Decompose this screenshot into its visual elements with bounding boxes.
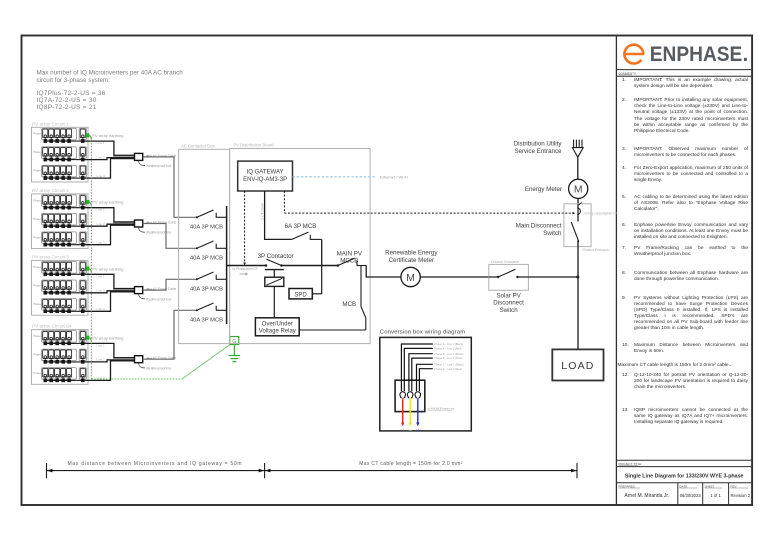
label weatherproof box leader — [139, 294, 172, 302]
svg-text:3P Contactor: 3P Contactor — [258, 253, 294, 260]
svg-text:40A 3P MCB: 40A 3P MCB — [190, 286, 223, 292]
solar PV disconnect switch — [489, 260, 529, 314]
svg-text:Phase A: Phase A — [33, 198, 44, 202]
wire phase B pair into terminal 2 — [409, 354, 433, 392]
svg-text:Phase A - Line 1 (Black): Phase A - Line 1 (Black) — [435, 342, 464, 346]
wire contactor coil to voltage relay — [273, 286, 275, 317]
svg-text:DATE: DATE — [680, 484, 688, 488]
node main junction — [576, 276, 579, 279]
wire: Phase B branch to AC cable bundle — [83, 158, 135, 160]
main disconnect switch blade — [571, 216, 579, 243]
title block divider line — [615, 36, 617, 506]
note 8. — [621, 271, 749, 283]
breaker 40A 3P MCB 1 — [190, 210, 227, 230]
PV string circuit 1 Phase C: panels + microinverters — [33, 165, 86, 179]
breaker MAIN PV MCCB — [337, 250, 367, 266]
note 12. — [621, 373, 749, 391]
enphase logo — [616, 43, 752, 69]
note 7. — [621, 246, 749, 258]
over/under voltage relay — [255, 318, 299, 336]
label AC Envoy cable — [147, 220, 177, 224]
PV string circuit 3 Phase C: panels + microinverters — [33, 299, 86, 313]
svg-text:PV array earthing: PV array earthing — [92, 266, 123, 271]
ethernet / wifi dashed link — [293, 174, 408, 179]
wire main disconnect to load — [577, 241, 579, 350]
svg-text:Phase A: Phase A — [33, 265, 44, 269]
note 6. — [621, 223, 749, 241]
svg-text:PV array Circuit 1: PV array Circuit 1 — [32, 121, 69, 126]
svg-text:Line 1: Line 1 — [97, 274, 106, 278]
renewable energy certificate meter — [385, 250, 438, 287]
wire: Phase C branch to AC cable bundle — [83, 159, 135, 179]
note 2. — [621, 98, 749, 134]
svg-text:Outdoor Enclosure: Outdoor Enclosure — [583, 248, 610, 252]
wire: Phase B branch to AC cable bundle — [83, 291, 135, 293]
wire: Phase A branch to AC cable bundle — [83, 343, 135, 357]
svg-text:Line 3: Line 3 — [97, 241, 106, 245]
output wire L2 — [409, 398, 413, 432]
svg-text:1 of 1: 1 of 1 — [710, 493, 721, 498]
svg-text:to 40A MCB branch ckt: to 40A MCB branch ckt — [428, 406, 455, 410]
svg-text:Main Disconnect: Main Disconnect — [516, 223, 562, 230]
wire: Phase C branch to AC cable bundle — [83, 225, 135, 245]
svg-text:Phase C - Line 2 (Red): Phase C - Line 2 (Red) — [435, 367, 463, 371]
note 13. — [621, 408, 749, 426]
svg-text:40A 3P MCB: 40A 3P MCB — [190, 255, 223, 261]
label AC Envoy cable — [147, 356, 177, 360]
svg-text:PV array Circuit 64: PV array Circuit 64 — [32, 324, 72, 329]
note 3. — [621, 147, 749, 159]
svg-text:Line 2: Line 2 — [97, 358, 106, 362]
svg-text:Envoy consumption CT: Envoy consumption CT — [585, 211, 618, 215]
wire: junction box 64 to 40A MCB 4 — [143, 310, 197, 359]
svg-text:ENPHASE: ENPHASE — [650, 43, 743, 66]
wire: Phase A branch to AC cable bundle — [83, 208, 135, 222]
terminal clamp 3 — [415, 392, 421, 398]
svg-text:Phase A: Phase A — [33, 132, 44, 136]
svg-text:1 x 4.0mm²: 1 x 4.0mm² — [260, 202, 264, 220]
PV string circuit 1 Phase A: panels + microinverters — [33, 128, 86, 142]
label to production CT — [233, 267, 258, 275]
svg-text:PV array earthing: PV array earthing — [92, 133, 123, 138]
PV Distribution Board enclosure — [230, 142, 371, 343]
project title bar — [616, 460, 752, 479]
svg-text:PREPARED: PREPARED — [619, 484, 636, 488]
output wire L3 — [416, 398, 420, 432]
svg-text:Ethernet / Wi-Fi: Ethernet / Wi-Fi — [380, 174, 408, 179]
load — [552, 349, 603, 380]
PV string circuit 64 Phase C: panels + microinverters — [33, 368, 86, 382]
note: max microinverters per branch circuit — [37, 70, 184, 111]
label AC Envoy cable — [147, 154, 177, 158]
comments bar — [616, 71, 752, 76]
svg-text:Weatherproof box: Weatherproof box — [146, 366, 172, 370]
terminal clamp 1 — [400, 392, 406, 398]
wire phase A pair into terminal 1 — [401, 344, 432, 391]
svg-text:Outdoor Enclosure: Outdoor Enclosure — [491, 260, 519, 264]
svg-text:M: M — [406, 273, 415, 284]
svg-text:Line 1: Line 1 — [97, 208, 106, 212]
svg-text:PV array Circuit 3: PV array Circuit 3 — [32, 255, 69, 260]
svg-text:40A 3P MCB: 40A 3P MCB — [190, 224, 223, 230]
PV string circuit 2 Phase C: panels + microinverters — [33, 232, 86, 246]
svg-text:Arnel M. Miranda Jr.: Arnel M. Miranda Jr. — [624, 493, 669, 499]
weatherproof junction box circuit 64 — [135, 356, 143, 363]
svg-text:Voltage Relay: Voltage Relay — [259, 329, 296, 335]
svg-text:Renewable Energy: Renewable Energy — [385, 250, 438, 257]
AC bus contactor to MCCB — [282, 265, 338, 267]
svg-text:ENV-IQ-AM3-3P: ENV-IQ-AM3-3P — [243, 177, 287, 183]
PV array earthing point circuit 1 — [86, 133, 124, 140]
AC branch circuit bus — [226, 206, 228, 324]
svg-text:SHEET: SHEET — [705, 484, 715, 488]
breaker MCB to voltage relay — [299, 266, 365, 331]
svg-text:LOAD: LOAD — [561, 360, 594, 372]
svg-text:40A 3P MCB: 40A 3P MCB — [190, 317, 223, 323]
ground symbol — [229, 345, 240, 362]
dimension: max distance microinverters to gateway — [47, 461, 265, 478]
terminal clamp 2 — [407, 392, 413, 398]
svg-text:6A 3P MCB: 6A 3P MCB — [285, 223, 317, 230]
conversion box outline — [380, 337, 472, 431]
svg-text:to Production CT: to Production CT — [233, 267, 258, 271]
note 9. — [621, 296, 749, 332]
svg-text:PV array Circuit 2: PV array Circuit 2 — [32, 188, 69, 193]
svg-text:Line 2: Line 2 — [97, 155, 106, 159]
wire phase C pair into terminal 3 — [417, 364, 433, 391]
label weatherproof box leader — [139, 363, 172, 371]
PV array Circuit 2 block — [32, 188, 89, 249]
svg-text:Weatherproof box: Weatherproof box — [146, 297, 172, 301]
svg-text:Conversion box wiring diagram: Conversion box wiring diagram — [380, 329, 466, 335]
distribution utility service entrance — [514, 140, 583, 158]
PV array Circuit 1 block — [32, 121, 89, 182]
wire service entrance to energy meter — [577, 157, 579, 179]
title block signature row — [616, 483, 752, 505]
svg-text:Phase B - Line 1 (Black): Phase B - Line 1 (Black) — [435, 352, 464, 356]
wire: Phase C branch to AC cable bundle — [83, 361, 135, 381]
IQ Gateway ENV-IQ-AM3-3P — [238, 161, 293, 191]
PV array Circuit 3 block — [32, 255, 89, 316]
svg-text:Max CT cable length = 150m for: Max CT cable length = 150m for 2.0 mm² — [359, 461, 462, 467]
note 5. — [621, 195, 749, 213]
envoy consumption CT — [577, 202, 617, 215]
dashed consumption CT wire from gateway — [284, 191, 575, 215]
PV array earthing point circuit 2 — [86, 200, 124, 207]
PV array earthing point circuit 64 — [86, 335, 124, 342]
svg-text:REV: REV — [731, 484, 737, 488]
PV string circuit 3 Phase A: panels + microinverters — [33, 262, 86, 276]
svg-text:IQ8P-72-2-US = 21: IQ8P-72-2-US = 21 — [37, 104, 97, 111]
svg-text:IQ GATEWAY: IQ GATEWAY — [247, 170, 284, 176]
wire: Phase B branch to AC cable bundle — [83, 360, 135, 362]
wire gateway to 6A MCB — [265, 191, 292, 239]
PV string circuit 64 Phase B: panels + microinverters — [33, 349, 86, 363]
breaker 40A 3P MCB 4 — [190, 303, 227, 323]
svg-text:Line 3: Line 3 — [97, 376, 106, 380]
svg-text:PV Distribution Board: PV Distribution Board — [234, 142, 275, 147]
svg-text:Solar PV: Solar PV — [496, 293, 521, 300]
wire REC meter to solar disconnect — [420, 276, 489, 278]
svg-text:MCB: MCB — [342, 301, 356, 308]
svg-text:PROJECT TITLE: PROJECT TITLE — [619, 462, 642, 466]
note max CT cable length — [618, 363, 746, 369]
svg-text:Phase A: Phase A — [33, 334, 44, 338]
wire solar disconnect to main line — [528, 276, 577, 278]
earth terminal G box — [230, 337, 239, 346]
wire: Phase A branch to AC cable bundle — [83, 141, 135, 155]
PV array Circuit 64 block — [32, 324, 89, 385]
svg-text:Line 2: Line 2 — [97, 289, 106, 293]
conversion box terminal block — [395, 380, 425, 411]
svg-text:Max distance between Microinve: Max distance between Microinverters and … — [68, 461, 243, 467]
svg-text:06/30/2023: 06/30/2023 — [680, 493, 702, 498]
green PV earthing conductor (dashed) — [90, 137, 92, 379]
svg-text:Max number of IQ Microinverter: Max number of IQ Microinverters per 40A … — [37, 70, 184, 77]
surge protection device SPD — [289, 266, 322, 299]
wire: junction box 1 to 40A MCB 1 — [143, 157, 197, 217]
dimension: max CT cable length — [265, 461, 577, 478]
PV array earthing point circuit 3 — [86, 266, 124, 273]
svg-text:.: . — [743, 43, 749, 66]
svg-text:PV array earthing: PV array earthing — [92, 200, 123, 205]
PV string circuit 2 Phase A: panels + microinverters — [33, 195, 86, 209]
breaker 40A 3P MCB 2 — [190, 241, 227, 261]
svg-text:circuit for 3-phase system:: circuit for 3-phase system: — [37, 77, 111, 84]
svg-text:Energy Meter: Energy Meter — [525, 186, 562, 193]
wire: Phase C branch to AC cable bundle — [83, 292, 135, 312]
svg-text:Over/Under: Over/Under — [262, 321, 293, 327]
svg-text:Line 2: Line 2 — [97, 222, 106, 226]
svg-text:Revision 2: Revision 2 — [731, 493, 751, 498]
svg-text:Phase B - Line 2 (Red): Phase B - Line 2 (Red) — [435, 356, 462, 360]
energy meter — [525, 179, 588, 198]
wire: junction box 3 to 40A MCB 3 — [143, 279, 197, 290]
svg-text:MAIN PV: MAIN PV — [337, 250, 363, 257]
svg-text:Line 3: Line 3 — [97, 174, 106, 178]
PV string circuit 2 Phase B: panels + microinverters — [33, 213, 86, 227]
PV string circuit 64 Phase A: panels + microinverters — [33, 331, 86, 345]
label weatherproof box leader — [139, 160, 172, 168]
wire energy meter to main disconnect — [577, 198, 579, 206]
PV string circuit 1 Phase B: panels + microinverters — [33, 147, 86, 161]
note 10. — [621, 343, 749, 355]
label AC Envoy cable — [147, 287, 177, 291]
svg-text:PV array earthing: PV array earthing — [92, 335, 123, 340]
wire MCCB to REC meter — [366, 266, 401, 278]
wire 6A MCB down to AC bus — [321, 239, 323, 265]
svg-text:Line 3: Line 3 — [97, 307, 106, 311]
svg-text:Service Entrance: Service Entrance — [514, 148, 562, 155]
output wire L1 — [401, 398, 405, 432]
svg-text:AC Contactor Box: AC Contactor Box — [181, 143, 215, 148]
contactor 3P — [258, 253, 294, 287]
svg-text:Switch: Switch — [499, 307, 518, 314]
svg-text:Line 1: Line 1 — [97, 343, 106, 347]
svg-text:M: M — [574, 185, 583, 196]
wire: Phase A branch to AC cable bundle — [83, 274, 135, 288]
svg-text:Phase A - Line 2 (Red): Phase A - Line 2 (Red) — [435, 347, 462, 351]
weatherproof junction box circuit 3 — [135, 287, 143, 294]
label weatherproof box leader — [139, 227, 172, 235]
svg-text:Single Line Diagram for 133/23: Single Line Diagram for 133/230V WYE 3-p… — [625, 473, 744, 479]
label to breaker circuit — [428, 406, 455, 410]
weatherproof junction box circuit 2 — [135, 220, 143, 227]
AC bus from breaker panel to contactor — [227, 265, 266, 267]
svg-text:Phase C - Line 1 (Black): Phase C - Line 1 (Black) — [435, 362, 464, 366]
weatherproof junction box circuit 1 — [135, 153, 143, 160]
svg-text:SPD: SPD — [294, 293, 307, 299]
PV string circuit 3 Phase B: panels + microinverters — [33, 280, 86, 294]
svg-text:Weatherproof box: Weatherproof box — [146, 164, 172, 168]
svg-text:Line 1: Line 1 — [97, 141, 106, 145]
svg-text:Distribution Utility: Distribution Utility — [514, 141, 563, 148]
svg-text:Weatherproof box: Weatherproof box — [146, 231, 172, 235]
svg-text:Switch: Switch — [543, 230, 562, 237]
breaker 6A 3P MCB — [285, 223, 322, 240]
green earthing conductor horizontal run — [91, 378, 182, 380]
note 4. — [621, 166, 749, 184]
green earthing conductor diagonal to distribution board — [182, 344, 231, 379]
dashed control wire gateway to contactor — [243, 191, 246, 265]
breaker 40A 3P MCB 3 — [190, 272, 227, 292]
svg-text:Certificate Meter: Certificate Meter — [389, 257, 434, 264]
note 1. — [621, 78, 749, 90]
svg-text:Disconnect: Disconnect — [493, 300, 524, 307]
main disconnect switch enclosure — [516, 204, 591, 247]
AC Contactor Box enclosure — [179, 143, 230, 343]
wire: junction box 2 to 40A MCB 2 — [143, 224, 197, 249]
wire: Phase B branch to AC cable bundle — [83, 224, 135, 226]
